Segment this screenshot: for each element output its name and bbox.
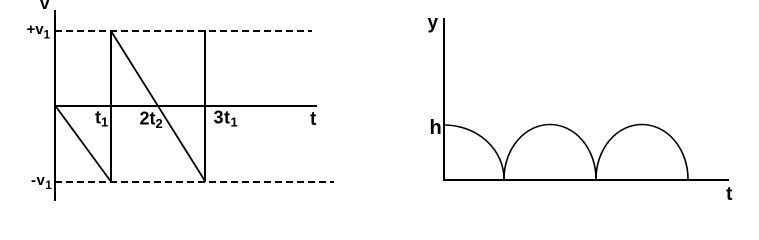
svg-text:h: h xyxy=(430,117,442,139)
arc 3: second full bounce xyxy=(596,124,688,179)
-v1 dashed level line xyxy=(55,181,334,183)
svg-text:t: t xyxy=(310,109,317,130)
t axis (horizontal) xyxy=(54,105,317,107)
vertical jump at 3t1 xyxy=(204,30,206,182)
vertical jump at t1 xyxy=(110,30,112,182)
v axis (vertical) xyxy=(54,10,56,201)
+v1 dashed level line xyxy=(55,30,312,32)
svg-text:t: t xyxy=(726,183,733,205)
y axis (vertical) xyxy=(443,18,445,180)
t axis (horizontal) xyxy=(443,179,729,181)
sawtooth segment 2: (t1,+v1) down to (3t1,-v1) xyxy=(111,31,205,181)
sawtooth segment 1: origin down to (t1, -v1) xyxy=(56,106,111,181)
arc 2: first full bounce xyxy=(504,124,596,179)
svg-text:v: v xyxy=(40,0,50,13)
svg-text:y: y xyxy=(428,13,439,34)
arc 1: quarter drop from (0,h) xyxy=(444,125,504,179)
